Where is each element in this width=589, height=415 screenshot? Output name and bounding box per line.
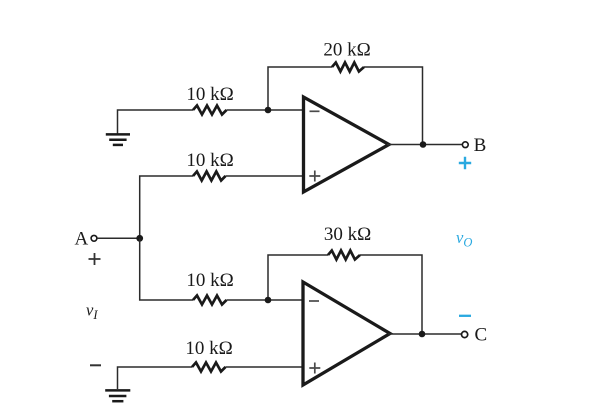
- wire: bottom ground stem and U2 non-inverting input wire: [118, 367, 303, 389]
- cyan minus sign above C: [459, 315, 471, 317]
- svg-text:vI: vI: [86, 301, 98, 323]
- wire: top-left ground stem and minus-input wire of U1: [118, 110, 303, 134]
- op-amp U1: [304, 97, 390, 192]
- wire: U2 output: [388, 333, 462, 335]
- node junction: U1 inverting input: [265, 107, 272, 114]
- resistor R1 10 kOhm (U1 inverting input): [193, 106, 227, 115]
- svg-text:30 kΩ: 30 kΩ: [324, 224, 371, 245]
- terminal C open circle: [462, 331, 468, 337]
- wire: node A riser down to U2 inverting input: [140, 238, 302, 300]
- resistor R6 30 kOhm (U2 feedback): [328, 251, 360, 260]
- black minus sign lower-left: [90, 364, 101, 366]
- svg-text:A: A: [75, 229, 89, 250]
- terminal A open circle: [91, 235, 97, 241]
- svg-text:10 kΩ: 10 kΩ: [186, 84, 233, 105]
- svg-text:10 kΩ: 10 kΩ: [186, 150, 233, 171]
- svg-text:10 kΩ: 10 kΩ: [185, 338, 232, 359]
- svg-text:B: B: [474, 135, 487, 156]
- black plus sign below A: [89, 253, 101, 265]
- wire: feedback loop of U2: [268, 255, 422, 334]
- U2 plus pin mark: [309, 363, 320, 374]
- node junction: U2 output / feedback: [419, 331, 426, 338]
- U2 minus pin mark: [309, 300, 319, 302]
- resistor R5 10 kOhm (U2 non-inverting input): [192, 363, 226, 372]
- cyan plus sign below B: [459, 157, 471, 169]
- U1 plus pin mark: [309, 171, 320, 182]
- ground (top-left): [106, 134, 130, 145]
- wire: U1 non-inverting input from node A riser: [140, 176, 302, 238]
- U1 minus pin mark: [310, 110, 320, 112]
- resistor R3 20 kOhm (U1 feedback): [332, 63, 364, 72]
- op-amp U2: [303, 282, 390, 385]
- wire: feedback loop of U1: [268, 67, 423, 145]
- svg-text:10 kΩ: 10 kΩ: [186, 270, 233, 291]
- node junction: A: [136, 235, 143, 242]
- node junction: U1 output / feedback: [420, 141, 427, 148]
- resistor R2 10 kOhm (U1 non-inverting input): [193, 172, 226, 181]
- ground (bottom-left): [105, 390, 130, 401]
- terminal B open circle: [462, 142, 468, 148]
- resistor R4 10 kOhm (U2 inverting input): [193, 296, 227, 305]
- node junction: U2 inverting input: [265, 297, 272, 304]
- svg-text:vO: vO: [456, 228, 472, 250]
- svg-text:C: C: [475, 324, 488, 345]
- svg-text:20 kΩ: 20 kΩ: [323, 40, 370, 61]
- wire: terminal A to node: [97, 237, 140, 239]
- wire: U1 output: [387, 144, 463, 146]
